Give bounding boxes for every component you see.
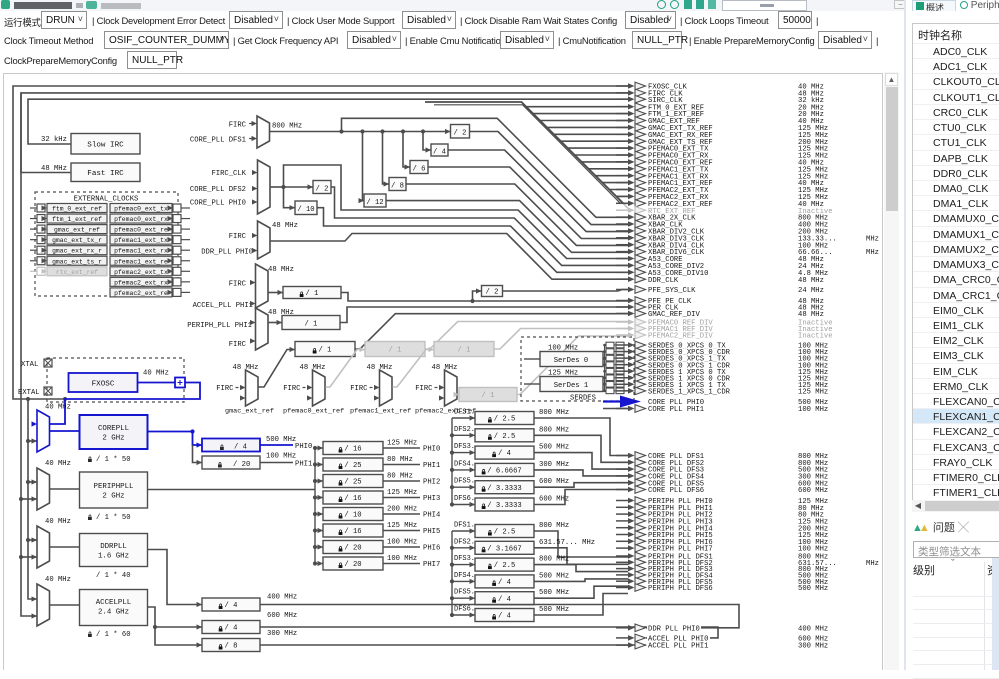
svg-text:/ 4: / 4 bbox=[234, 444, 247, 452]
svg-text:PHI1: PHI1 bbox=[295, 461, 312, 469]
output SERDES_1_XPCS_1_TX bbox=[616, 381, 829, 390]
svg-text:125 MHz: 125 MHz bbox=[798, 388, 828, 396]
svg-text:FXOSC: FXOSC bbox=[92, 381, 115, 389]
svg-text:2 GHz: 2 GHz bbox=[102, 493, 124, 501]
mux XBAR source bbox=[190, 116, 270, 148]
svg-text:XTAL: XTAL bbox=[21, 361, 38, 369]
svg-text:/ 4: / 4 bbox=[498, 613, 511, 621]
svg-text:CORE_PLL DFS1: CORE_PLL DFS1 bbox=[190, 137, 246, 145]
output PERIPH PLL PHI7 bbox=[616, 544, 829, 553]
svg-text:100 MHz: 100 MHz bbox=[387, 555, 417, 563]
output PERIPH PLL DFS6 bbox=[616, 584, 829, 593]
svg-text:gmac_ext_ts_r: gmac_ext_ts_r bbox=[52, 258, 102, 265]
svg-text:gmac_ext_rx_r: gmac_ext_rx_r bbox=[52, 248, 102, 255]
svg-text:ACCELPLL: ACCELPLL bbox=[96, 599, 131, 607]
output PFEMAC0_EXT_TX bbox=[616, 144, 829, 153]
external clock rtc_ext_ref bbox=[30, 267, 107, 276]
svg-text:/ 2.5: / 2.5 bbox=[494, 416, 516, 424]
svg-text:/ 1 * 50: / 1 * 50 bbox=[96, 456, 131, 464]
mux ACCELPLL input bbox=[37, 576, 71, 626]
svg-text:ftm_1_ext_ref: ftm_1_ext_ref bbox=[52, 216, 102, 223]
svg-text:48 MHz: 48 MHz bbox=[41, 165, 67, 173]
svg-text:125 MHz: 125 MHz bbox=[387, 489, 417, 497]
wire RTC_EXT_REF (inactive) bbox=[623, 203, 628, 208]
wire ext clock peel 13 bbox=[616, 195, 628, 197]
wire ext clock peel 4 bbox=[554, 133, 628, 135]
group FXOSC dashed box bbox=[47, 358, 184, 402]
block SerDes 1 bbox=[524, 370, 603, 392]
svg-text:48 MHz: 48 MHz bbox=[432, 364, 458, 372]
top tab strip bbox=[0, 0, 999, 11]
divider XBAR /6 bbox=[403, 132, 628, 239]
svg-text:/ 6.6667: / 6.6667 bbox=[487, 468, 522, 476]
svg-text:/ 4: / 4 bbox=[498, 596, 511, 604]
svg-text:/ 2: / 2 bbox=[316, 186, 329, 194]
svg-text:800 MHz: 800 MHz bbox=[539, 426, 569, 434]
wire ext clock peel 9 bbox=[589, 168, 628, 170]
svg-text:300 MHz: 300 MHz bbox=[798, 643, 828, 651]
svg-text:/ 1: / 1 bbox=[458, 347, 471, 355]
group EXTERNAL_CLOCKS bbox=[35, 192, 178, 296]
output ACCEL PLL PHI0 bbox=[616, 634, 829, 643]
divider CORE DFS5 / 3.3333 bbox=[454, 478, 628, 494]
output RTC_EXT_REF bbox=[616, 206, 834, 215]
svg-text:FIRC: FIRC bbox=[283, 385, 301, 393]
output DDR_CLK bbox=[616, 275, 825, 284]
wire ext clock peel 0 bbox=[527, 106, 629, 108]
pll ACCELPLL bbox=[50, 590, 148, 626]
svg-text:FIRC: FIRC bbox=[216, 385, 234, 393]
output DDR PLL PHI0 bbox=[616, 624, 829, 633]
svg-text:FIRC: FIRC bbox=[229, 281, 247, 289]
svg-text:/ 3.1667: / 3.1667 bbox=[487, 545, 522, 553]
svg-text:100 MHz: 100 MHz bbox=[798, 546, 828, 554]
wire XBAR_2X direct bbox=[342, 118, 629, 217]
svg-text:DFS3.: DFS3. bbox=[454, 443, 475, 451]
svg-text:/ 16: / 16 bbox=[344, 495, 361, 503]
output PFEMAC2_REF_DIV bbox=[616, 331, 834, 340]
output XBAR_DIV6_CLK bbox=[616, 248, 879, 257]
output GMAC_EXT_REF bbox=[616, 117, 825, 126]
output PERIPH PLL PHI5 bbox=[616, 531, 829, 540]
svg-text:/ 3.3333: / 3.3333 bbox=[487, 502, 522, 510]
divider PERIPH PHI0 / 16 bbox=[323, 440, 440, 455]
svg-text:631.57... MHz: 631.57... MHz bbox=[539, 539, 595, 547]
wire FIRC bus bbox=[19, 93, 37, 619]
svg-text:GMAC_REF_DIV: GMAC_REF_DIV bbox=[648, 311, 700, 319]
svg-text:PERIPH_PLL PHI1: PERIPH_PLL PHI1 bbox=[187, 322, 252, 330]
svg-text:48 MHz: 48 MHz bbox=[233, 364, 259, 372]
block SerDes 0 bbox=[524, 345, 603, 367]
output SERDES_1_XPCS_1_CDR bbox=[616, 387, 829, 396]
svg-text:gmac_ext_tx_r: gmac_ext_tx_r bbox=[52, 237, 102, 244]
divider CORE DFS3 / 4 bbox=[454, 443, 628, 469]
output PER_CLK bbox=[616, 303, 825, 312]
svg-text:/ 4: / 4 bbox=[225, 602, 238, 610]
divider CORE /20 bbox=[202, 453, 312, 470]
output CORE PLL DFS6 bbox=[616, 486, 829, 495]
svg-text:/ 1: / 1 bbox=[319, 347, 332, 355]
external clock gmac_ext_ref bbox=[30, 225, 107, 234]
svg-text:800 MHz: 800 MHz bbox=[272, 123, 302, 131]
oscillator Fast IRC bbox=[41, 163, 140, 182]
svg-text:/ 20: / 20 bbox=[344, 561, 361, 569]
svg-text:gmac_ext_ref: gmac_ext_ref bbox=[54, 227, 100, 234]
wire CORE_PLL_PHI0 (selected arrow) bbox=[603, 396, 641, 408]
output PERIPH PLL PHI4 bbox=[616, 524, 829, 533]
svg-text:125 MHz: 125 MHz bbox=[387, 522, 417, 530]
output PERIPH PLL DFS4 bbox=[616, 571, 829, 580]
svg-text:pfemac1_ext_tx: pfemac1_ext_tx bbox=[114, 237, 168, 244]
divider CORE DFS1 / 2.5 bbox=[454, 409, 628, 456]
svg-text:PHI3: PHI3 bbox=[423, 495, 440, 503]
serdes output gates bbox=[603, 342, 627, 393]
wire A53_CORE direct bbox=[270, 165, 628, 259]
svg-text:DFS5.: DFS5. bbox=[454, 478, 475, 486]
wire 40MHz bus bbox=[26, 397, 37, 602]
svg-text:PHI2: PHI2 bbox=[423, 479, 440, 487]
svg-text:MHz: MHz bbox=[866, 249, 879, 257]
divider CORE DFS6 / 3.3333 bbox=[454, 490, 628, 512]
svg-text:500 MHz: 500 MHz bbox=[539, 444, 569, 452]
svg-text:800 MHz: 800 MHz bbox=[539, 409, 569, 417]
svg-text:pfemac0_ext_rx: pfemac0_ext_rx bbox=[114, 216, 168, 223]
svg-text:500 MHz: 500 MHz bbox=[539, 589, 569, 597]
output CORE PLL PHI1 bbox=[616, 405, 829, 414]
output PFEMAC1_REF_DIV bbox=[616, 325, 834, 334]
output PFEMAC2_EXT_TX bbox=[616, 186, 829, 195]
svg-text:SerDes 1: SerDes 1 bbox=[554, 382, 589, 390]
svg-text:PHI5: PHI5 bbox=[423, 528, 440, 536]
mux pfemac1_ext_ref bbox=[350, 364, 411, 416]
divider PFE /1 bbox=[268, 287, 628, 304]
divider XBAR /2 bbox=[445, 125, 628, 225]
toolbar row 3 bbox=[0, 52, 905, 72]
wire ext clock peel 3 bbox=[547, 126, 628, 128]
output A53_CORE_DIV10 bbox=[616, 269, 829, 278]
svg-text:pfemac1_ext_ref: pfemac1_ext_ref bbox=[350, 408, 411, 416]
svg-text:FIRC: FIRC bbox=[229, 233, 247, 241]
svg-text:100 MHz: 100 MHz bbox=[266, 453, 296, 461]
clock diagram bbox=[0, 72, 884, 670]
svg-text:FIRC: FIRC bbox=[350, 385, 368, 393]
output XBAR_DIV2_CLK bbox=[616, 227, 829, 236]
external clock pfemac1_ext_rx bbox=[110, 246, 190, 255]
output PERIPH PLL DFS5 bbox=[616, 577, 829, 586]
svg-text:/ 20: / 20 bbox=[344, 545, 361, 553]
output PFEMAC1_EXT_REF bbox=[616, 179, 825, 188]
output PFE_PE_CLK bbox=[616, 297, 825, 306]
divider XBAR /8 bbox=[383, 132, 629, 246]
output PERIPH PLL PHI6 bbox=[616, 538, 829, 547]
output CORE PLL DFS4 bbox=[616, 472, 829, 481]
wire ext clock peel 11 bbox=[602, 182, 628, 184]
svg-text:/ 2.5: / 2.5 bbox=[494, 433, 516, 441]
svg-text:/ 8: / 8 bbox=[391, 183, 404, 191]
output CORE PLL DFS1 bbox=[616, 452, 829, 461]
external clock ftm_1_ext_ref bbox=[30, 214, 107, 223]
output A53_CORE_DIV2 bbox=[616, 262, 825, 271]
divider PERIPH PHI3 / 16 bbox=[323, 489, 440, 504]
external clock gmac_ext_tx_r bbox=[30, 235, 107, 244]
svg-text:FIRC: FIRC bbox=[229, 122, 247, 130]
diagram vertical scrollbar bbox=[884, 72, 899, 670]
mux PFE source bbox=[193, 264, 294, 310]
output CORE PLL PHI0 bbox=[647, 398, 829, 407]
divider PERIPH DFS3 / 2.5 bbox=[454, 555, 628, 572]
wire Fast IRC to FIRC_CLK bbox=[21, 93, 628, 173]
output PFE_SYS_CLK bbox=[616, 286, 825, 295]
svg-text:DFS5.: DFS5. bbox=[454, 589, 475, 597]
external clock pfemac1_ext_re bbox=[110, 256, 190, 265]
svg-text:pfemac2_ext_rx: pfemac2_ext_rx bbox=[114, 279, 168, 286]
divider PERIPH DFS1 / 2.5 bbox=[454, 522, 628, 558]
external clock ftm_0_ext_ref bbox=[30, 204, 107, 213]
output PFEMAC0_EXT_RX bbox=[616, 151, 829, 160]
svg-text:/ 16: / 16 bbox=[344, 528, 361, 536]
svg-text:MHz: MHz bbox=[866, 235, 879, 243]
divider ACCEL_PLL_PHI0 /4 bbox=[148, 607, 719, 638]
divider ACCEL_PLL_PHI1 /8 bbox=[155, 627, 646, 652]
svg-text:DFS2.: DFS2. bbox=[454, 426, 475, 434]
output PFEMAC1_EXT_TX bbox=[616, 165, 829, 174]
svg-text:SERDES: SERDES bbox=[570, 395, 596, 403]
output CORE PLL DFS2 bbox=[616, 459, 829, 468]
divider PFE_SYS /2 bbox=[473, 286, 629, 302]
divider PERIPH DFS5 / 4 bbox=[454, 586, 628, 605]
output FTM_0_EXT_REF bbox=[616, 103, 825, 112]
svg-text:PHI4: PHI4 bbox=[423, 512, 440, 520]
output PFEMAC1_EXT_RX bbox=[616, 172, 829, 181]
label ACCELPLL ratio bbox=[88, 631, 131, 639]
divider PERIPH PHI2 / 25 bbox=[323, 473, 440, 488]
svg-text:DFS6.: DFS6. bbox=[454, 495, 475, 503]
svg-text:/ 1 * 40: / 1 * 40 bbox=[96, 572, 131, 580]
svg-text:DFS2.: DFS2. bbox=[454, 538, 475, 546]
svg-text:gmac_ext_ref: gmac_ext_ref bbox=[225, 408, 274, 416]
svg-text:MHz: MHz bbox=[866, 560, 879, 568]
pin EXTAL bbox=[18, 387, 52, 397]
external clock pfemac2_ext_tx bbox=[110, 267, 190, 276]
external clock pfemac2_ext_re bbox=[110, 288, 190, 297]
svg-text:/ 4: / 4 bbox=[498, 579, 511, 587]
group SERDES dashed box bbox=[521, 337, 634, 403]
svg-text:pfemac0_ext_ref: pfemac0_ext_ref bbox=[283, 408, 344, 416]
output A53_CORE bbox=[616, 255, 825, 264]
svg-text:40 MHz: 40 MHz bbox=[45, 576, 71, 584]
output XBAR_DIV4_CLK bbox=[616, 241, 829, 250]
svg-text:600 MHz: 600 MHz bbox=[798, 487, 828, 495]
bus CORE DFS input bbox=[450, 415, 475, 507]
right panel bbox=[906, 0, 999, 670]
divider XBAR /4 bbox=[423, 132, 628, 232]
divider PFEMAC1_REF /1 (inactive) bbox=[393, 329, 629, 388]
svg-text:/ 1: / 1 bbox=[306, 290, 319, 298]
svg-text:ftm_0_ext_ref: ftm_0_ext_ref bbox=[52, 206, 102, 213]
svg-text:DFS1.: DFS1. bbox=[454, 522, 475, 530]
svg-text:CORE_PLL PHI0: CORE_PLL PHI0 bbox=[190, 200, 246, 208]
divider PFEMAC0_REF /1 (inactive) bbox=[326, 322, 629, 388]
label COREPLL ratio bbox=[88, 456, 131, 464]
divider CORE DFS2 / 2.5 bbox=[454, 426, 628, 463]
wire external clock bundle trunk bbox=[425, 102, 623, 203]
svg-text:FIRC: FIRC bbox=[415, 385, 433, 393]
svg-text:PERIPH PLL PHI7: PERIPH PLL PHI7 bbox=[648, 546, 713, 554]
svg-text:/ 1 * 50: / 1 * 50 bbox=[96, 514, 131, 522]
svg-text:/ 16: / 16 bbox=[344, 446, 361, 454]
output SERDES_1_XPCS_0_TX bbox=[616, 367, 829, 376]
svg-text:DFS1.: DFS1. bbox=[454, 409, 475, 417]
svg-text:/ 6: / 6 bbox=[413, 166, 426, 174]
svg-text:/ 1: / 1 bbox=[389, 347, 402, 355]
wire ext clock peel 1 bbox=[533, 113, 628, 115]
label DDRPLL ratio bbox=[96, 572, 131, 580]
svg-text:PHI7: PHI7 bbox=[423, 561, 440, 569]
toolbar row 2 bbox=[0, 32, 905, 52]
svg-text:600 MHz: 600 MHz bbox=[539, 478, 569, 486]
svg-text:500 MHz: 500 MHz bbox=[539, 606, 569, 614]
output PERIPH PLL PHI2 bbox=[616, 510, 825, 519]
svg-text:/ 1: / 1 bbox=[482, 392, 495, 400]
wire DDR_CLK bbox=[270, 234, 628, 280]
svg-text:CORE_PLL DFS2: CORE_PLL DFS2 bbox=[190, 186, 246, 194]
svg-text:DFS6.: DFS6. bbox=[454, 606, 475, 614]
svg-text:40 MHz: 40 MHz bbox=[45, 460, 71, 468]
pin XTAL bbox=[21, 359, 52, 369]
svg-text:/ 2.5: / 2.5 bbox=[494, 562, 516, 570]
divider PERIPH PHI4 / 10 bbox=[323, 506, 440, 521]
divider GMAC_REF /1 bbox=[259, 314, 629, 387]
wire 800MHz trunk bbox=[270, 123, 451, 134]
output SERDES_0_XPCS_1_CDR bbox=[616, 361, 829, 370]
output XBAR_2X_CLK bbox=[616, 213, 829, 222]
svg-text:Fast IRC: Fast IRC bbox=[87, 170, 124, 178]
svg-text:DFS3.: DFS3. bbox=[454, 555, 475, 563]
divider CORE /4 (selected) bbox=[202, 436, 312, 452]
svg-text:800 MHz: 800 MHz bbox=[539, 556, 569, 564]
wire ext clock peel 6 bbox=[568, 147, 628, 149]
svg-text:Inactive: Inactive bbox=[798, 333, 833, 341]
svg-text:pfemac1_ext_re: pfemac1_ext_re bbox=[114, 258, 168, 265]
svg-text:125 MHz: 125 MHz bbox=[387, 440, 417, 448]
svg-text:pfemac0_ext_re: pfemac0_ext_re bbox=[114, 227, 168, 234]
svg-text:/ 2: / 2 bbox=[454, 130, 467, 138]
external clock pfemac0_ext_rx bbox=[110, 214, 190, 223]
divider PERIPH DFS2 / 3.1667 bbox=[454, 538, 628, 564]
svg-text:/ 10: / 10 bbox=[297, 206, 314, 214]
wire Slow IRC to SIRC_CLK bbox=[28, 99, 628, 144]
svg-text:pfemac0_ext_tx: pfemac0_ext_tx bbox=[114, 206, 168, 213]
mux gmac_ext_ref bbox=[216, 364, 274, 416]
svg-text:400 MHz: 400 MHz bbox=[798, 625, 828, 633]
output FTM_1_EXT_REF bbox=[616, 110, 825, 119]
svg-text:/ 2.5: / 2.5 bbox=[494, 529, 516, 537]
divider XBAR /12 bbox=[359, 132, 629, 253]
output SERDES_0_XPCS_0_TX bbox=[616, 341, 829, 350]
divider PERIPH PHI1 / 25 bbox=[323, 456, 440, 471]
output SERDES_0_XPCS_0_CDR bbox=[616, 348, 829, 357]
wire ext clock peel 10 bbox=[596, 175, 629, 177]
svg-text:500 MHz: 500 MHz bbox=[539, 572, 569, 580]
svg-text:/ 25: / 25 bbox=[344, 462, 361, 470]
svg-text:EXTAL: EXTAL bbox=[18, 389, 40, 397]
svg-text:40 MHz: 40 MHz bbox=[143, 370, 169, 378]
wire ext clock peel 2 bbox=[540, 120, 628, 122]
output PERIPH PLL PHI3 bbox=[616, 517, 829, 526]
svg-text:/ 1: / 1 bbox=[305, 321, 318, 329]
output SERDES_0_XPCS_1_TX bbox=[616, 354, 829, 363]
mux DDRPLL input bbox=[37, 518, 71, 568]
svg-text:40 MHz: 40 MHz bbox=[45, 518, 71, 526]
divider PERIPH PHI7 / 20 bbox=[323, 555, 440, 570]
svg-text:1.6 GHz: 1.6 GHz bbox=[98, 553, 129, 561]
external clock gmac_ext_ts_r bbox=[30, 256, 107, 265]
wire ext clock peel 12 bbox=[609, 189, 628, 191]
divider PERIPH DFS6 / 4 bbox=[454, 594, 628, 622]
svg-text:48 MHz: 48 MHz bbox=[367, 364, 393, 372]
divider PFEMAC2_REF /1 (inactive) bbox=[454, 336, 629, 402]
svg-text:80 MHz: 80 MHz bbox=[387, 473, 413, 481]
svg-text:200 MHz: 200 MHz bbox=[387, 506, 417, 514]
output PERIPH PLL PHI1 bbox=[616, 504, 825, 513]
mux PER source bbox=[187, 308, 294, 350]
mux pfemac0_ext_ref bbox=[283, 364, 344, 416]
svg-text:COREPLL: COREPLL bbox=[98, 425, 129, 433]
svg-text:PHI6: PHI6 bbox=[423, 545, 440, 553]
svg-text:32 kHz: 32 kHz bbox=[41, 136, 67, 144]
svg-text:500 MHz: 500 MHz bbox=[798, 585, 828, 593]
svg-text:/ 20: / 20 bbox=[233, 461, 250, 469]
svg-text:/ 3.3333: / 3.3333 bbox=[487, 485, 522, 493]
svg-text:300 MHz: 300 MHz bbox=[267, 630, 297, 638]
svg-text:PFEMAC2_REF_DIV: PFEMAC2_REF_DIV bbox=[648, 333, 713, 341]
divider A53 /10 bbox=[284, 187, 629, 272]
output GMAC_EXT_TX_REF bbox=[616, 124, 829, 133]
oscillator FXOSC bbox=[69, 370, 169, 393]
pll COREPLL bbox=[50, 415, 148, 449]
wire ext clock peel 7 bbox=[575, 154, 628, 156]
svg-text:800 MHz: 800 MHz bbox=[539, 522, 569, 530]
svg-text:PHI0: PHI0 bbox=[295, 443, 312, 451]
svg-text:/ 8: / 8 bbox=[225, 643, 238, 651]
output SIRC_CLK bbox=[616, 95, 825, 104]
divider A53 /2 bbox=[284, 181, 629, 266]
svg-text:/ 4: / 4 bbox=[498, 450, 511, 458]
svg-text:400 MHz: 400 MHz bbox=[267, 594, 297, 602]
output PERIPH PLL PHI0 bbox=[616, 497, 829, 506]
wire ext clock peel 8 bbox=[582, 161, 628, 163]
svg-text:24 MHz: 24 MHz bbox=[798, 287, 824, 295]
svg-text:/ 4: / 4 bbox=[433, 149, 446, 157]
svg-text:DFS4.: DFS4. bbox=[454, 572, 475, 580]
svg-text:/ 10: / 10 bbox=[344, 512, 361, 520]
output PFEMAC2_EXT_RX bbox=[616, 193, 829, 202]
svg-text:DDRPLL: DDRPLL bbox=[100, 543, 127, 551]
label PERIPHPLL ratio bbox=[88, 514, 131, 522]
output PERIPH PLL DFS1 bbox=[616, 552, 829, 561]
wire FXOSC output (selected) bbox=[32, 378, 201, 427]
toolbar row 1 bbox=[0, 12, 905, 32]
svg-text:EXTERNAL_CLOCKS: EXTERNAL_CLOCKS bbox=[74, 196, 139, 204]
svg-text:DFS4.: DFS4. bbox=[454, 460, 475, 468]
external clock pfemac0_ext_re bbox=[110, 225, 190, 234]
divider CORE DFS4 / 6.6667 bbox=[454, 460, 628, 476]
svg-text:100 MHz: 100 MHz bbox=[798, 406, 828, 414]
pll DDRPLL bbox=[50, 534, 148, 567]
svg-text:2 GHz: 2 GHz bbox=[102, 435, 124, 443]
svg-text:SerDes 0: SerDes 0 bbox=[554, 357, 589, 365]
svg-text:300 MHz: 300 MHz bbox=[539, 461, 569, 469]
